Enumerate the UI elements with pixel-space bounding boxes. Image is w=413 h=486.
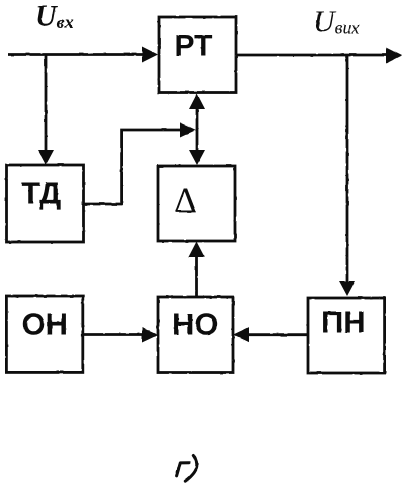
wire RT-Delta vertical (196, 107, 199, 151)
svg-text:ПН: ПН (321, 305, 366, 340)
wire NO up to Delta (195, 255, 198, 297)
svg-text:Uвх: Uвх (35, 0, 74, 33)
svg-text:НО: НО (172, 307, 219, 342)
block PN (308, 298, 385, 373)
arrowhead output right (386, 48, 402, 64)
arrowhead comparison node horizontal (180, 123, 196, 138)
arrowhead up into RT bottom (189, 94, 205, 110)
arrowhead down into Delta top (189, 150, 205, 165)
wire TD to comparison node (84, 130, 182, 204)
block TD (7, 165, 84, 242)
arrowhead into RT left (142, 47, 158, 63)
caption g) (177, 456, 197, 482)
block RT (159, 17, 236, 93)
block NO (158, 297, 233, 373)
arrowhead into PN top (339, 281, 355, 296)
arrowhead into NO left (142, 328, 158, 343)
svg-text:Δ: Δ (174, 180, 197, 220)
arrowhead up into Delta bottom (189, 242, 205, 258)
block Delta (158, 166, 235, 241)
svg-text:ТД: ТД (21, 176, 61, 211)
wire output junction drop to PN (346, 56, 349, 283)
wire ON to NO (83, 333, 143, 336)
svg-text:РТ: РТ (175, 30, 213, 63)
wire input Uvx horizontal (8, 53, 144, 56)
arrowhead into NO right (233, 327, 249, 342)
svg-text:ОН: ОН (22, 307, 69, 342)
wire output Uvyx horizontal (236, 54, 387, 57)
wire junction drop to TD (45, 55, 48, 152)
svg-text:Uвих: Uвих (313, 5, 359, 38)
block ON (6, 296, 82, 372)
arrowhead into TD top (38, 150, 54, 165)
wire PN to NO (248, 333, 308, 336)
